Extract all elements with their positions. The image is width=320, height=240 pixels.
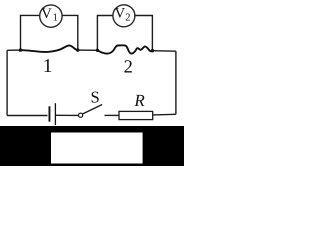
svg-text:2: 2 [125, 13, 130, 24]
wire: battery to bottom-left corner [7, 115, 47, 117]
wire: V2 left lead [97, 16, 113, 51]
battery cell: long thin positive plate [54, 103, 56, 125]
node junction D (right of resistor 2) [151, 49, 154, 52]
wire: bottom right (right vertical to resistor R) [153, 113, 176, 116]
voltmeter V1 [40, 5, 62, 27]
svg-text:V: V [115, 6, 126, 22]
wire: left vertical [6, 50, 8, 115]
voltmeter V2 [113, 5, 135, 27]
svg-text:S: S [91, 88, 100, 107]
label S [91, 88, 100, 107]
resistor 1 (hand-drawn squiggle) [21, 45, 78, 52]
svg-text:V: V [41, 6, 52, 22]
wire: right vertical [175, 51, 177, 114]
wire: V1 right lead [62, 15, 78, 50]
resistor 2 (hand-drawn squiggle) [97, 45, 152, 53]
svg-text:1: 1 [43, 56, 53, 77]
resistor R (box) [119, 111, 153, 119]
node junction A (left of resistor 1) [19, 48, 22, 51]
label 2 [124, 58, 133, 78]
wire: middle top segment [78, 49, 98, 51]
wire: V1 left lead [21, 15, 40, 50]
svg-text:R: R [133, 91, 145, 110]
label R [133, 91, 145, 110]
wire: top-right segment [152, 50, 176, 53]
wire: resistor R to switch contact [105, 114, 120, 116]
battery cell: short thick negative plate [49, 106, 51, 121]
white notch in redacted band [51, 133, 143, 164]
node junction B (right of resistor 1) [76, 48, 79, 51]
wire: switch to battery [56, 114, 79, 116]
node junction C (left of resistor 2) [96, 49, 99, 52]
label 1 [43, 56, 53, 77]
wire: top-left segment [7, 49, 20, 51]
wire: V2 right lead [135, 16, 153, 51]
svg-text:1: 1 [53, 13, 58, 24]
redacted black band [0, 126, 184, 166]
switch S (open knife switch) [79, 105, 103, 118]
svg-text:2: 2 [124, 58, 133, 78]
